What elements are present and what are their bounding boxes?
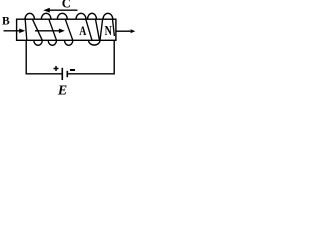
svg-text:E: E	[57, 84, 67, 96]
svg-text:B: B	[2, 16, 10, 28]
svg-text:C: C	[62, 0, 71, 11]
svg-text:A: A	[79, 25, 87, 39]
svg-text:N: N	[105, 22, 112, 38]
